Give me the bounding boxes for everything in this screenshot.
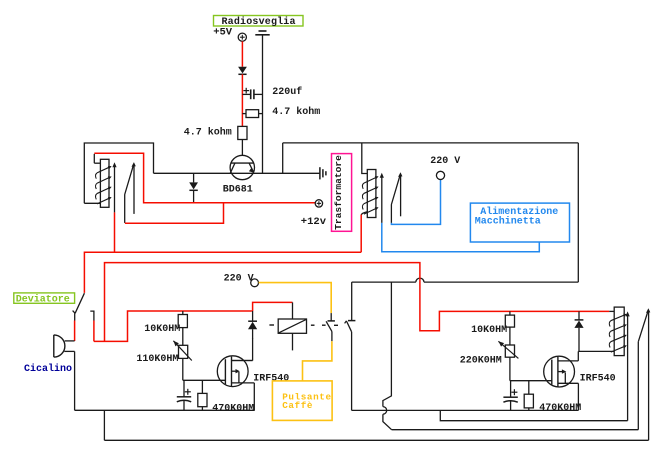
wire jog line (hop over bus) (383, 282, 392, 430)
label Cicalino (24, 363, 72, 375)
ground (top) (255, 31, 269, 35)
svg-text:4.7 kohm: 4.7 kohm (184, 127, 232, 139)
label 220 V (top) (430, 156, 460, 167)
wire red up to relay contact (red) (253, 302, 293, 311)
label 4.7 kohm (right) (272, 106, 320, 118)
label 220KOHM (460, 356, 502, 367)
diode D1 (238, 67, 247, 75)
relay K1 contact box (278, 302, 306, 350)
svg-text:Radiosveglia: Radiosveglia (222, 16, 296, 28)
label IRF540 (right) (580, 373, 616, 384)
capacitor C1 220uf (242, 88, 262, 99)
svg-text:Cicalino: Cicalino (24, 363, 72, 375)
wire L1 to relay K3 armature (440, 410, 627, 420)
relay K3 armature (626, 311, 630, 420)
transistor Q1 BD681 (230, 155, 254, 179)
wire collector rail (154, 172, 320, 174)
wire armature to net1 (red) (114, 212, 116, 252)
relay K3 switch (638, 308, 650, 440)
+5V label (213, 27, 233, 39)
wire ground rail (262, 35, 264, 174)
svg-text:+12v: +12v (301, 216, 327, 228)
wire L2 to relay K3 blade (392, 429, 639, 431)
resistor R2 4.7 kohm (horizontal) (242, 110, 262, 118)
resistor R1 4.7 kohm (vertical) (238, 126, 247, 155)
svg-text:IRF540: IRF540 (580, 373, 616, 384)
transformer T1 primary (361, 143, 378, 218)
svg-text:220uf: 220uf (272, 86, 302, 98)
relay K3 coil (609, 307, 627, 356)
terminal 220V (bottom) (251, 279, 259, 287)
svg-text:Trasformatore: Trasformatore (333, 155, 344, 230)
svg-text:220K0HM: 220K0HM (460, 356, 502, 367)
svg-text:Caffè: Caffè (282, 400, 313, 411)
wire red bus to gate chain (red) (94, 311, 252, 341)
wire S2 to source bus (352, 409, 579, 411)
wire drain link (right) (578, 351, 614, 361)
wire contact1 to buzzer (red) (74, 321, 76, 342)
label BD681 (223, 184, 253, 195)
wire S1 to Pulsante box (yellow) (303, 341, 332, 381)
label box Alimentazione Macchinetta (470, 203, 569, 242)
label 110KOHM (136, 354, 178, 365)
label 220uf (272, 86, 302, 98)
terminal +5V (238, 33, 246, 41)
resistor R8 470KOHM (right) (524, 381, 533, 411)
diode D3 (248, 311, 257, 339)
transformer T1 secondary switch (391, 172, 402, 223)
label 470KOHM (right) (539, 403, 581, 414)
transformer T1 secondary armature (380, 173, 384, 223)
wire enclosure right edge (577, 143, 579, 282)
capacitor C2 (left) (177, 380, 191, 410)
label box Deviatore (14, 293, 75, 306)
resistor R5 470KOHM (left) (198, 380, 207, 410)
relay K1 armature (112, 162, 116, 212)
wire enclosure bottom edge (hop over red) (352, 278, 579, 282)
wire net1 (red) (84, 252, 361, 293)
wire switch to 220V terminal (blue) (391, 180, 440, 225)
mosfet Q3 IRF540 (right) (544, 356, 579, 387)
wire trimmer to gate node (183, 358, 226, 380)
wire enclosure top-left (84, 143, 153, 203)
wire secondary to Alimentazione (blue) (382, 223, 540, 252)
wire D1 to R1 (red) (241, 74, 243, 126)
svg-text:220 V: 220 V (224, 273, 254, 284)
wire +5V feed (red) (241, 41, 243, 67)
svg-text:470K0HM: 470K0HM (212, 403, 254, 414)
diode D4 (574, 311, 583, 351)
svg-text:110K0HM: 110K0HM (136, 354, 178, 365)
wire relay K1 red feed (94, 153, 315, 202)
mosfet Q2 IRF540 (left) (217, 356, 254, 387)
svg-text:BD681: BD681 (223, 184, 253, 195)
switch S1 pulsante (326, 313, 335, 341)
mechanical link dashes (269, 324, 338, 326)
label 4.7 kohm (left) (184, 127, 232, 139)
wire bus2 (104, 439, 648, 441)
svg-text:10K0HM: 10K0HM (471, 325, 507, 336)
wire primary to net1 (red) (360, 215, 362, 253)
resistor R3 10KOHM (178, 311, 187, 345)
label IRF540 (left) (253, 374, 289, 385)
wire net2 (red) (105, 263, 610, 342)
label 470KOHM (left) (212, 403, 254, 414)
label box Radiosveglia (214, 16, 304, 29)
switch Deviatore contact 2 (90, 311, 94, 320)
label 10KOHM (left) (144, 324, 180, 335)
terminal +12v (315, 200, 322, 207)
wire bus1 (75, 409, 255, 411)
trimmer R7 220KOHM (498, 341, 518, 358)
terminal 220V (top) (436, 171, 444, 179)
resistor R6 10KOHM (right) (505, 311, 514, 345)
wire bus1 to bus2 branch (103, 410, 105, 440)
wire K1 contact to +12v (red) (125, 203, 224, 223)
svg-text:470K0HM: 470K0HM (539, 403, 581, 414)
svg-text:220 V: 220 V (430, 156, 460, 167)
wire collector up to enclosure (282, 143, 284, 173)
switch S2 (345, 282, 356, 410)
wire drain up (left) (232, 338, 253, 361)
svg-text:4.7 kohm: 4.7 kohm (272, 106, 320, 118)
relay K1 coil (84, 154, 111, 207)
svg-text:+5V: +5V (213, 27, 233, 39)
label box Trasformatore (332, 154, 352, 232)
svg-text:Deviatore: Deviatore (16, 294, 70, 306)
svg-text:10K0HM: 10K0HM (144, 324, 180, 335)
label 10KOHM (right) (471, 325, 507, 336)
buzzer Cicalino (54, 335, 75, 357)
wire buzzer to bus1 (74, 351, 76, 410)
trimmer R4 110KOHM (173, 341, 191, 361)
wire enclosure top edge (283, 142, 579, 144)
label 220 V (bottom) (224, 273, 254, 284)
diode D2 (189, 173, 198, 202)
wire trimmer to gate node (right) (510, 357, 552, 381)
switch Deviatore blade (73, 293, 85, 320)
capacitor C3 (right) (503, 381, 517, 411)
wire contact2 to bus (red) (93, 321, 95, 342)
svg-text:IRF540: IRF540 (253, 374, 289, 385)
wire source to bus (right) (577, 383, 579, 410)
wire 220V to switch S1 (yellow) (259, 283, 332, 314)
relay K1 switch (125, 162, 136, 223)
wire source to bus1 (left) (253, 383, 255, 410)
label +12v (301, 216, 327, 228)
ground (right, rotated) (320, 167, 326, 179)
label box Pulsante Caffe (272, 381, 332, 421)
svg-text:Macchinetta: Macchinetta (475, 216, 541, 228)
